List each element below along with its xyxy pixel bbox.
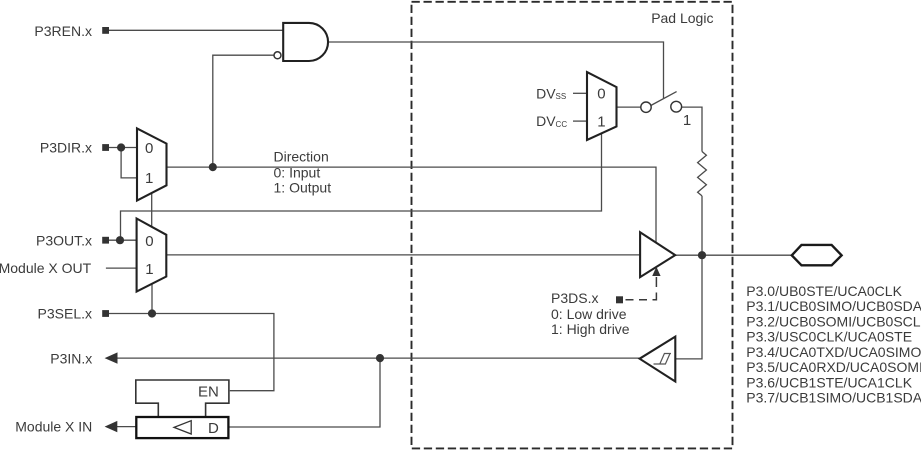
svg-text:P3REN.x: P3REN.x	[34, 23, 92, 39]
mux U4 pull resistor select	[587, 72, 617, 140]
svg-text:1: High drive: 1: High drive	[551, 321, 630, 337]
svg-text:0: Input: 0: Input	[274, 164, 321, 180]
svg-text:P3.5/UCA0RXD/UCA0SOMI: P3.5/UCA0RXD/UCA0SOMI	[746, 359, 921, 375]
svg-text:P3IN.x: P3IN.x	[50, 350, 92, 366]
svg-text:0: 0	[597, 85, 605, 102]
svg-text:EN: EN	[198, 384, 219, 401]
wire pull select: P3OUT junction to mux3 select	[121, 133, 602, 240]
svg-text:Module X OUT: Module X OUT	[0, 260, 92, 276]
AND gate U1	[283, 23, 328, 61]
svg-text:P3.4/UCA0TXD/UCA0SIMO: P3.4/UCA0TXD/UCA0SIMO	[746, 344, 921, 360]
svg-text:P3.2/UCB0SOMI/UCB0SCL: P3.2/UCB0SOMI/UCB0SCL	[746, 313, 920, 329]
svg-text:1: 1	[145, 170, 153, 187]
svg-text:1: 1	[145, 261, 153, 278]
svg-text:P3.3/USC0CLK/UCA0STE: P3.3/USC0CLK/UCA0STE	[746, 329, 912, 345]
D latch clock triangle	[174, 421, 191, 434]
output driver U5	[640, 232, 675, 277]
svg-text:0: Low drive: 0: Low drive	[551, 306, 627, 322]
square terminal P3REN	[102, 27, 109, 34]
resistor R pullup	[698, 152, 707, 196]
pad hexagon	[792, 245, 842, 265]
P3DS square terminal	[616, 296, 623, 303]
arrowhead P3IN	[105, 352, 118, 363]
junction dot P3IN / D output	[376, 354, 384, 362]
wire direction line to driver enable	[167, 167, 657, 242]
schmitt trigger U6	[640, 337, 676, 382]
svg-text:0: 0	[145, 233, 153, 250]
hysteresis symbol	[654, 354, 672, 365]
mux U3 P3OUT	[137, 219, 167, 292]
svg-text:P3.6/UCB1STE/UCA1CLK: P3.6/UCB1STE/UCA1CLK	[746, 374, 912, 390]
junction dot P3OUT	[116, 236, 124, 244]
svg-text:1: 1	[683, 112, 691, 129]
switch lever	[651, 92, 677, 106]
switch contact circle left	[641, 102, 651, 112]
svg-text:Module X IN: Module X IN	[15, 419, 92, 435]
svg-text:P3SEL.x: P3SEL.x	[38, 306, 92, 322]
wire AND output to switch lever	[328, 42, 663, 98]
square terminal P3OUT	[102, 237, 109, 244]
wire P3SEL to mux2 select	[151, 284, 153, 314]
wire P3OUT input 0	[109, 239, 137, 241]
arrowhead Module X IN	[105, 421, 118, 432]
wire P3DIR input 1 branch	[121, 148, 137, 178]
svg-text:P3.1/UCB0SIMO/UCB0SDA: P3.1/UCB0SIMO/UCB0SDA	[746, 298, 921, 314]
AND gate input bubble	[274, 52, 281, 59]
wire select chain mux1-mux2	[151, 193, 153, 227]
svg-text:P3OUT.x: P3OUT.x	[36, 233, 92, 249]
junction dot P3DIR	[117, 143, 125, 151]
wire P3SEL to EN	[109, 314, 274, 391]
svg-text:P3DS.x: P3DS.x	[551, 290, 598, 306]
wire P3IN line from schmitt	[117, 357, 640, 359]
wire DVss stub	[573, 92, 587, 94]
svg-text:0: 0	[145, 140, 153, 157]
EN latch box	[136, 380, 229, 417]
square terminal P3SEL	[102, 310, 109, 317]
svg-text:Pad Logic: Pad Logic	[651, 10, 713, 26]
wire DVcc stub	[573, 120, 587, 122]
P3DS dashed control	[626, 277, 657, 300]
svg-text:Direction: Direction	[274, 149, 329, 165]
wire Module X OUT stub	[106, 267, 137, 269]
switch contact circle right	[671, 101, 682, 112]
wire AND bubble input from direction junction	[213, 55, 275, 167]
wire D output to P3IN junction	[228, 358, 380, 427]
wire resistor to pad junction	[701, 196, 703, 255]
svg-text:1: Output: 1: Output	[274, 180, 332, 196]
svg-text:P3DIR.x: P3DIR.x	[40, 140, 92, 156]
wire driver output to pad	[675, 254, 792, 256]
P3DS arrowhead	[652, 267, 660, 276]
square terminal P3DIR	[102, 144, 109, 151]
wire Module X IN stub	[117, 426, 136, 428]
wire switch to resistor	[682, 107, 702, 151]
wire mux3 output to switch	[617, 106, 641, 108]
wire P3REN to AND gate	[109, 29, 284, 31]
wire P3DIR input 0	[109, 147, 137, 149]
svg-text:D: D	[208, 420, 219, 437]
svg-text:P3.0/UB0STE/UCA0CLK: P3.0/UB0STE/UCA0CLK	[746, 283, 902, 299]
wire pad junction to schmitt input	[675, 255, 702, 359]
svg-text:P3.7/UCB1SIMO/UCB1SDA: P3.7/UCB1SIMO/UCB1SDA	[746, 390, 921, 406]
junction dot direction line	[209, 163, 217, 171]
svg-text:1: 1	[597, 114, 605, 131]
D latch box	[136, 417, 228, 438]
wire mux2 output to driver input	[166, 254, 640, 256]
Pad Logic dashed box	[412, 2, 733, 449]
junction dot P3SEL	[148, 309, 156, 317]
mux U2 P3DIR	[137, 128, 167, 200]
junction dot pad node	[698, 251, 706, 259]
